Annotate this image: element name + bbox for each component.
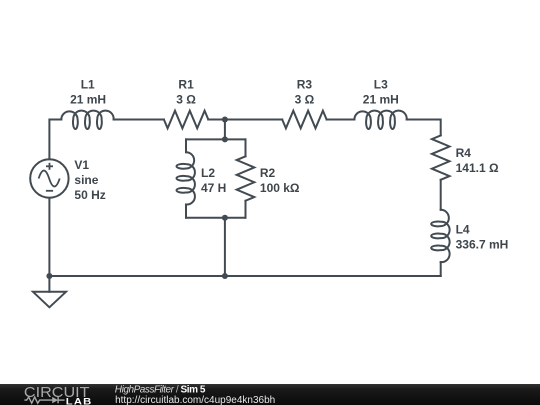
svg-text:21 mH: 21 mH [70,92,106,106]
svg-text:LAB: LAB [66,397,93,405]
svg-text:141.1 Ω: 141.1 Ω [456,161,499,175]
svg-text:47 H: 47 H [201,181,226,195]
svg-text:L1: L1 [81,77,95,91]
svg-text:100 kΩ: 100 kΩ [260,181,300,195]
svg-text:L2: L2 [201,166,215,180]
svg-text:http://circuitlab.com/c4up9e4k: http://circuitlab.com/c4up9e4kn36bh [115,395,275,405]
svg-text:L4: L4 [456,222,470,236]
svg-text:sine: sine [74,173,98,187]
svg-text:3 Ω: 3 Ω [176,92,196,106]
svg-text:R1: R1 [178,77,194,91]
svg-text:R4: R4 [456,146,472,160]
svg-text:50 Hz: 50 Hz [74,188,105,202]
svg-text:21 mH: 21 mH [363,92,399,106]
svg-text:R3: R3 [297,77,313,91]
svg-text:R2: R2 [260,166,276,180]
svg-text:336.7 mH: 336.7 mH [456,237,509,251]
svg-text:3 Ω: 3 Ω [295,92,315,106]
svg-text:V1: V1 [74,158,89,172]
svg-text:L3: L3 [374,77,388,91]
